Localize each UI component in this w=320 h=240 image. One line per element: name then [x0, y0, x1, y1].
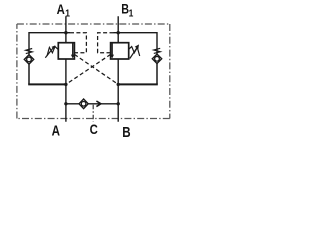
svg-text:B: B: [122, 124, 130, 139]
svg-text:C: C: [90, 121, 98, 138]
svg-text:1: 1: [129, 8, 134, 19]
svg-text:1: 1: [65, 8, 70, 19]
svg-text:A: A: [57, 1, 65, 18]
svg-text:A: A: [52, 122, 61, 139]
